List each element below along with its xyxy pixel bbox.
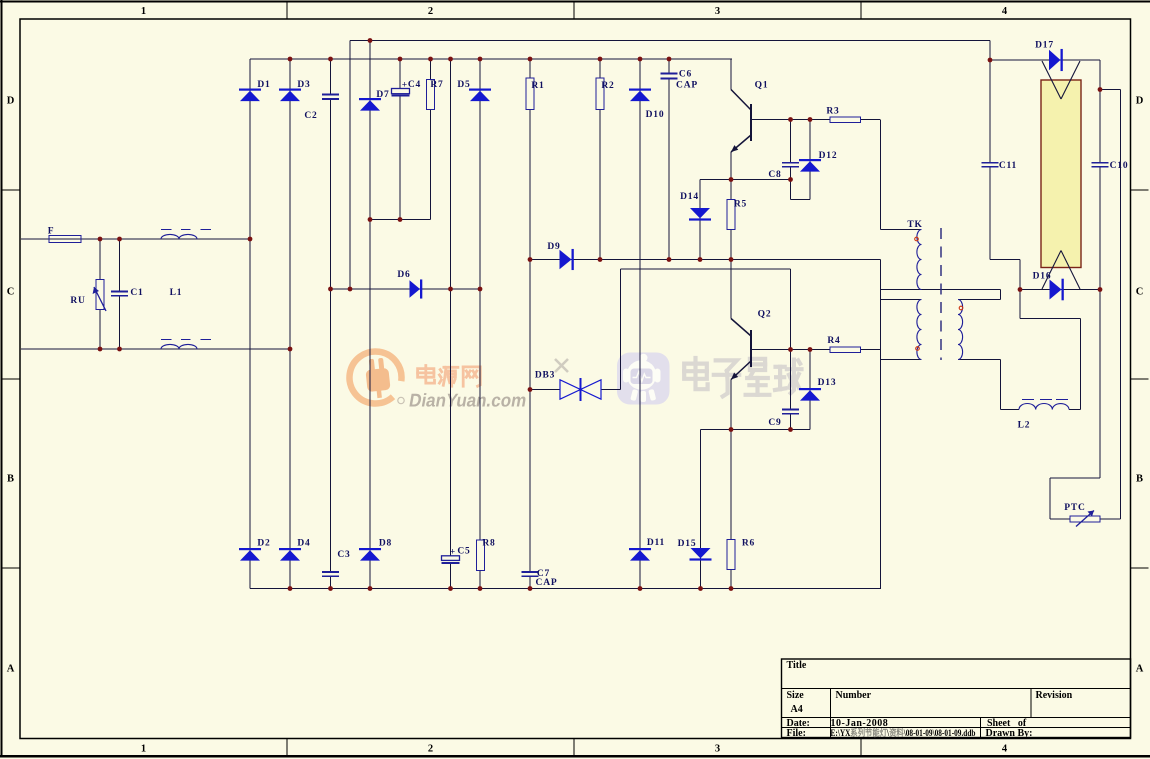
svg-text:1: 1 — [141, 744, 146, 755]
svg-text:A: A — [7, 664, 15, 675]
svg-text:CAP: CAP — [536, 578, 558, 588]
svg-text:C3: C3 — [337, 550, 350, 560]
svg-text:DB3: DB3 — [535, 371, 555, 381]
svg-text:TK: TK — [907, 220, 922, 230]
svg-text:R1: R1 — [531, 81, 544, 91]
svg-text:A: A — [1136, 664, 1144, 675]
svg-text:D5: D5 — [457, 80, 470, 90]
svg-text:D15: D15 — [678, 539, 697, 549]
svg-text:Number: Number — [836, 690, 872, 701]
svg-text:Q1: Q1 — [755, 81, 769, 91]
svg-text:R4: R4 — [827, 336, 840, 346]
svg-text:D: D — [7, 96, 15, 107]
svg-text:C8: C8 — [768, 170, 781, 180]
svg-text:D1: D1 — [257, 80, 270, 90]
svg-text:D14: D14 — [680, 192, 699, 202]
svg-text:Size: Size — [787, 690, 805, 701]
svg-text:D16: D16 — [1033, 272, 1052, 282]
svg-text:R5: R5 — [734, 200, 747, 210]
svg-text:1: 1 — [141, 6, 146, 17]
svg-text:RU: RU — [70, 296, 85, 306]
svg-text:D8: D8 — [379, 539, 392, 549]
svg-text:Title: Title — [787, 660, 807, 671]
svg-text:D: D — [1136, 96, 1144, 107]
svg-text:Revision: Revision — [1036, 690, 1073, 701]
svg-text:+: + — [450, 548, 455, 558]
svg-text:B: B — [1136, 474, 1143, 485]
svg-text:C6: C6 — [679, 70, 692, 80]
svg-text:E:\YX系列节能灯\资料\08-01-09\08-01-0: E:\YX系列节能灯\资料\08-01-09\08-01-09.ddb — [831, 727, 976, 739]
svg-text:D9: D9 — [547, 242, 560, 252]
svg-text:File:: File: — [787, 728, 806, 739]
svg-text:C2: C2 — [304, 111, 317, 121]
svg-text:D3: D3 — [297, 80, 310, 90]
svg-text:10-Jan-2008: 10-Jan-2008 — [831, 718, 889, 729]
svg-text:D11: D11 — [647, 538, 665, 548]
svg-text:R2: R2 — [601, 81, 614, 91]
svg-text:D7: D7 — [376, 90, 389, 100]
svg-text:A4: A4 — [791, 704, 803, 715]
svg-text:C4: C4 — [408, 80, 421, 90]
svg-text:R8: R8 — [482, 539, 495, 549]
svg-text:D6: D6 — [397, 270, 410, 280]
svg-text:CAP: CAP — [676, 81, 698, 91]
svg-text:C1: C1 — [130, 288, 143, 298]
svg-text:D12: D12 — [819, 151, 838, 161]
svg-text:2: 2 — [428, 6, 433, 17]
svg-text:Drawn By:: Drawn By: — [986, 728, 1033, 739]
svg-text:C: C — [7, 287, 15, 298]
svg-text:C11: C11 — [999, 161, 1017, 171]
svg-text:C: C — [1136, 287, 1144, 298]
svg-text:R3: R3 — [826, 107, 839, 117]
svg-text:+: + — [402, 81, 407, 91]
svg-text:2: 2 — [428, 744, 433, 755]
svg-text:3: 3 — [715, 6, 720, 17]
svg-text:3: 3 — [715, 744, 720, 755]
svg-text:4: 4 — [1002, 6, 1008, 17]
svg-text:D17: D17 — [1035, 41, 1054, 51]
svg-text:B: B — [7, 474, 14, 485]
svg-text:D10: D10 — [646, 110, 665, 120]
svg-text:R6: R6 — [742, 539, 755, 549]
svg-text:D4: D4 — [297, 539, 310, 549]
svg-text:4: 4 — [1002, 744, 1008, 755]
svg-text:D13: D13 — [818, 378, 837, 388]
svg-text:PTC: PTC — [1064, 503, 1085, 513]
svg-text:L2: L2 — [1018, 421, 1031, 431]
svg-text:D2: D2 — [257, 539, 270, 549]
svg-text:C9: C9 — [768, 418, 781, 428]
svg-text:Q2: Q2 — [758, 310, 772, 320]
svg-text:F: F — [48, 227, 55, 237]
svg-text:C5: C5 — [457, 547, 470, 557]
svg-text:C10: C10 — [1110, 161, 1129, 171]
svg-text:R7: R7 — [430, 80, 443, 90]
svg-text:L1: L1 — [170, 288, 183, 298]
svg-text:DianYuan.com: DianYuan.com — [408, 390, 529, 411]
